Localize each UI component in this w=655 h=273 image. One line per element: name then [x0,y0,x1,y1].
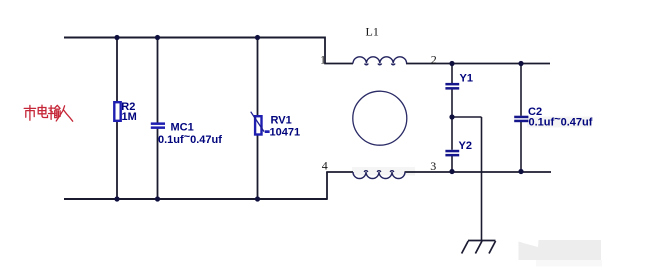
wire bottom-left horizontal [64,198,327,200]
varistor RV1 [251,112,300,139]
wire RV1 column upper [257,38,259,116]
capacitor C2 [514,106,593,129]
wire MC1 column upper [157,38,159,123]
capacitor MC1 [151,122,222,146]
svg-text:0.1uf~0.47uf: 0.1uf~0.47uf [529,113,593,128]
capacitor Y2 [445,140,472,157]
wire R2 column lower [116,121,118,199]
junction Y1-Y2 ground tap [449,114,454,119]
wire RV1 column lower [257,135,259,199]
junction top RV1 [255,35,260,40]
wire bottom-right horizontal left of coil [326,171,353,173]
svg-text:Y2: Y2 [459,140,472,152]
capacitor Y1 [445,72,473,89]
wire top step vertical [324,37,326,64]
junction top R2 [114,35,119,40]
ground [462,241,496,254]
wire Y column upper (node 2 to Y1) [451,64,453,84]
电 [38,108,46,114]
svg-text:2: 2 [431,52,437,66]
输 [49,107,54,109]
watermark remnant behind C2 value [527,117,592,128]
wire Y column lower (Y2 to node 3) [451,156,453,172]
wire top-right horizontal left of coil [324,63,353,65]
wire top-right horizontal right of coil [406,63,550,65]
wire bottom step vertical [326,172,328,200]
svg-text:4: 4 [322,158,328,172]
inductor L1 top winding [353,57,407,64]
watermark remnant under bottom coil [352,167,415,176]
junction node2 Y1 [449,61,454,66]
label 市电输入 (mains input, drawn strokes) [24,105,72,121]
junction bottom R2 [114,196,119,201]
junction node3 Y2 [449,169,454,174]
wire C2 column upper [520,64,522,116]
wire mid jog horizontal to ground branch [452,116,482,118]
resistor R2 [114,101,136,123]
市 [29,105,31,107]
junction top MC1 [155,35,160,40]
wire C2 column lower [520,122,522,172]
入 [56,106,64,121]
wire bottom-right horizontal right of coil [405,171,552,173]
svg-text:1M: 1M [122,111,137,123]
wire R2 column upper [116,38,118,103]
svg-text:Y1: Y1 [460,72,473,84]
wire Y column middle (Y1 to Y2) [451,90,453,150]
svg-text:L1: L1 [366,24,379,38]
wire top-left horizontal [64,37,325,39]
watermark remnant bottom right [519,240,603,267]
svg-text:0.1uf~0.47uf: 0.1uf~0.47uf [158,131,222,146]
inductor L1 bottom winding [353,172,405,179]
svg-text:3: 3 [430,159,436,173]
svg-text:RV1: RV1 [271,115,292,127]
svg-text:10471: 10471 [270,126,301,138]
junction bottom RV1 [255,196,260,201]
junction bottom MC1 [155,196,160,201]
wire MC1 column lower [157,129,159,200]
junction node2 C2 [518,61,523,66]
svg-text:MC1: MC1 [171,122,194,134]
wire ground vertical [481,117,483,241]
junction node3 C2 [518,169,523,174]
L1 core circle [353,91,407,145]
